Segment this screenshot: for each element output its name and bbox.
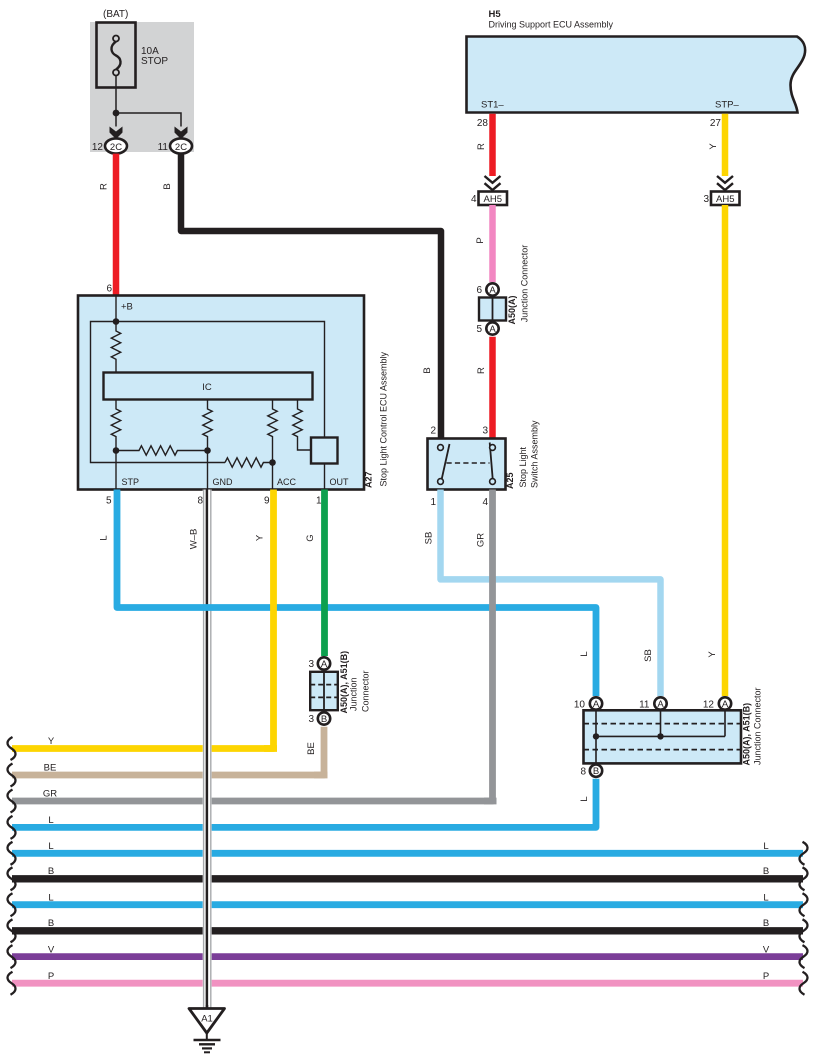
svg-text:27: 27 bbox=[710, 118, 722, 129]
svg-text:GR: GR bbox=[43, 789, 57, 800]
svg-text:Junction Connector: Junction Connector bbox=[520, 245, 530, 323]
svg-text:2: 2 bbox=[430, 426, 436, 437]
svg-text:L: L bbox=[579, 796, 590, 801]
wire SB (A25 pin 1 to junction 11A) bbox=[441, 490, 661, 697]
connector oval 2C pin 12 bbox=[105, 138, 127, 153]
svg-text:A50(A), A51(B): A50(A), A51(B) bbox=[339, 651, 349, 714]
svg-text:B: B bbox=[162, 183, 173, 189]
svg-text:STP: STP bbox=[122, 477, 140, 487]
wire break mark left y=827.4 bbox=[7, 816, 15, 839]
wire break mark left y=930.8 bbox=[7, 919, 15, 942]
wire break mark left y=956.6 bbox=[7, 945, 15, 968]
chevron arrows into AH5 no.4 bbox=[485, 176, 501, 191]
svg-text:L: L bbox=[48, 815, 53, 826]
wire STP column to pin bbox=[115, 451, 117, 490]
wire R (battery to A27 +B) bbox=[113, 154, 120, 296]
svg-text:A: A bbox=[593, 699, 600, 710]
wire break mark right y=983.2 bbox=[799, 972, 807, 995]
svg-text:1: 1 bbox=[430, 497, 436, 508]
svg-text:A: A bbox=[489, 285, 496, 296]
svg-text:6: 6 bbox=[106, 284, 112, 295]
fuse 10A STOP box bbox=[97, 23, 136, 88]
svg-text:BE: BE bbox=[44, 763, 57, 774]
svg-text:B: B bbox=[763, 866, 769, 877]
resistor below IC at STP column bbox=[111, 400, 120, 451]
junction connector right body bbox=[584, 710, 742, 763]
svg-text:Y: Y bbox=[707, 651, 718, 658]
svg-text:L: L bbox=[763, 892, 768, 903]
bus wire BE horizontal bbox=[12, 772, 328, 779]
IC box bbox=[104, 373, 313, 400]
svg-text:L: L bbox=[48, 892, 53, 903]
chevron arrows into AH5 no.3 bbox=[717, 176, 733, 191]
svg-text:3: 3 bbox=[703, 194, 709, 205]
junction connector A50(A) body bbox=[479, 298, 506, 321]
wire node to pin 11 branch bbox=[116, 113, 181, 127]
svg-text:Stop Light Control ECU Assembl: Stop Light Control ECU Assembly bbox=[379, 351, 389, 486]
svg-text:STOP: STOP bbox=[141, 56, 168, 67]
connector arrow pin 11 bbox=[175, 127, 188, 140]
svg-text:5: 5 bbox=[106, 496, 112, 507]
svg-text:L: L bbox=[48, 841, 53, 852]
svg-text:8: 8 bbox=[197, 496, 203, 507]
bus wire Y horizontal bbox=[12, 745, 277, 752]
wire +B into box bbox=[115, 296, 117, 322]
fuse symbol bbox=[111, 42, 120, 70]
svg-text:B: B bbox=[763, 918, 769, 929]
svg-text:Driving Support ECU Assembly: Driving Support ECU Assembly bbox=[489, 20, 614, 30]
transistor output driver box bbox=[311, 438, 338, 464]
svg-text:Switch Assembly: Switch Assembly bbox=[530, 420, 540, 488]
svg-text:9: 9 bbox=[264, 496, 270, 507]
ground A1 bbox=[206, 1005, 209, 1009]
svg-text:2C: 2C bbox=[175, 142, 187, 153]
wire break mark left y=775 bbox=[7, 764, 15, 787]
svg-text:G: G bbox=[305, 534, 316, 541]
svg-text:SB: SB bbox=[424, 532, 435, 545]
wire R (H5 ST1- to AH5) bbox=[489, 114, 496, 176]
svg-text:R: R bbox=[99, 183, 110, 190]
svg-text:A27: A27 bbox=[364, 471, 374, 488]
svg-text:P: P bbox=[763, 971, 769, 982]
bus wire B row6 bbox=[12, 875, 803, 882]
wire break mark right y=930.8 bbox=[799, 919, 807, 942]
svg-text:(BAT): (BAT) bbox=[103, 9, 128, 20]
svg-text:12: 12 bbox=[92, 142, 104, 153]
wire break mark left y=878.8 bbox=[7, 867, 15, 890]
svg-text:11: 11 bbox=[158, 142, 169, 153]
wire break mark left y=801 bbox=[7, 790, 15, 813]
resistor below IC at driver column bbox=[293, 400, 311, 451]
wire B (battery to A25 pin 2) bbox=[181, 154, 441, 440]
wire R (A50 to A25 pin 3) bbox=[489, 337, 496, 440]
svg-text:ACC: ACC bbox=[277, 477, 297, 487]
node +B junction dot bbox=[113, 318, 120, 325]
svg-text:GR: GR bbox=[476, 533, 487, 547]
bus wire V row9 bbox=[12, 953, 803, 960]
svg-text:Connector: Connector bbox=[361, 670, 371, 712]
svg-text:B: B bbox=[593, 766, 599, 777]
svg-text:10: 10 bbox=[574, 700, 586, 711]
wire break mark right y=878.8 bbox=[799, 867, 807, 890]
bus wire L row5 bbox=[12, 850, 803, 857]
connector oval 2C pin 11 bbox=[170, 138, 192, 153]
battery shaded area bbox=[90, 22, 194, 152]
svg-text:SB: SB bbox=[643, 649, 654, 662]
svg-text:H5: H5 bbox=[489, 9, 502, 20]
wire break mark left y=748.5 bbox=[7, 737, 15, 760]
svg-text:4: 4 bbox=[471, 194, 477, 205]
svg-text:B: B bbox=[48, 866, 54, 877]
svg-text:OUT: OUT bbox=[330, 477, 350, 487]
svg-text:V: V bbox=[763, 944, 770, 955]
svg-text:A50(A): A50(A) bbox=[507, 295, 517, 324]
svg-text:4: 4 bbox=[482, 497, 488, 508]
svg-text:2C: 2C bbox=[110, 142, 122, 153]
wire P (AH5 to junction connector A50) bbox=[489, 205, 496, 282]
bus wire L row7 bbox=[12, 901, 803, 908]
svg-text:AH5: AH5 bbox=[484, 194, 502, 205]
svg-text:6: 6 bbox=[476, 285, 482, 296]
resistor below IC at ACC column bbox=[268, 400, 277, 490]
wire G (A27 OUT to junction 3A) bbox=[321, 490, 328, 657]
connector arrow pin 12 bbox=[110, 127, 123, 140]
wire W-B (GND pin to ground A1) bbox=[203, 490, 212, 1009]
svg-text:12: 12 bbox=[703, 700, 715, 711]
svg-text:L: L bbox=[763, 841, 768, 852]
wire L (A27 STP pin to junction 10A) bbox=[117, 490, 596, 697]
svg-text:3: 3 bbox=[308, 659, 314, 670]
svg-text:Junction: Junction bbox=[349, 677, 359, 711]
resistor pull-up to IC bbox=[111, 322, 120, 373]
svg-text:A: A bbox=[489, 324, 496, 335]
svg-text:1: 1 bbox=[316, 496, 322, 507]
switch link dashed line bbox=[447, 462, 490, 464]
svg-text:IC: IC bbox=[202, 382, 212, 393]
svg-text:L: L bbox=[99, 535, 110, 540]
wire break mark right y=853.3 bbox=[799, 842, 807, 865]
svg-text:R: R bbox=[476, 367, 487, 374]
wire driver to OUT pin bbox=[324, 464, 326, 490]
svg-text:A: A bbox=[321, 659, 328, 670]
svg-text:3: 3 bbox=[308, 714, 314, 725]
svg-text:Y: Y bbox=[255, 534, 266, 541]
svg-text:11: 11 bbox=[639, 700, 650, 711]
svg-text:W–B: W–B bbox=[189, 529, 200, 550]
svg-text:+B: +B bbox=[121, 302, 133, 313]
svg-text:GND: GND bbox=[213, 477, 234, 487]
svg-text:B: B bbox=[321, 714, 327, 725]
wire GR vertical (A25 pin 4 to bus) bbox=[484, 490, 493, 802]
svg-text:5: 5 bbox=[476, 324, 482, 335]
svg-text:B: B bbox=[422, 367, 433, 373]
horizontal resistor STP-GND bbox=[116, 446, 208, 455]
bus wire B row8 bbox=[12, 927, 803, 934]
svg-text:BE: BE bbox=[306, 742, 317, 755]
svg-text:A25: A25 bbox=[505, 472, 515, 489]
svg-text:28: 28 bbox=[477, 118, 489, 129]
H5 Driving Support ECU box bbox=[467, 37, 806, 113]
wire L (8B to bus) bbox=[12, 779, 596, 828]
horizontal resistor on ACC line bbox=[225, 458, 273, 467]
wire Y vertical (A27 pin 9 to bus) bbox=[264, 490, 274, 749]
node junction dot bbox=[113, 110, 120, 117]
svg-text:8: 8 bbox=[580, 767, 586, 778]
A27 Stop Light Control ECU box bbox=[78, 296, 364, 490]
resistor below IC at GND column bbox=[203, 400, 212, 490]
node dot STP bbox=[113, 447, 120, 454]
internal links bbox=[596, 710, 725, 763]
internal bus rectangle bbox=[91, 322, 325, 463]
wire break mark right y=904.7 bbox=[799, 893, 807, 916]
svg-text:Stop Light: Stop Light bbox=[518, 446, 528, 487]
svg-text:Y: Y bbox=[708, 143, 719, 150]
svg-text:ST1–: ST1– bbox=[481, 100, 504, 111]
bus wire GR horizontal bbox=[12, 798, 497, 805]
svg-text:P: P bbox=[475, 237, 486, 243]
svg-text:B: B bbox=[48, 918, 54, 929]
wire Y (AH5 to junction connector 12A) bbox=[722, 205, 729, 696]
svg-text:STP–: STP– bbox=[715, 100, 739, 111]
svg-text:A1: A1 bbox=[201, 1014, 213, 1025]
A25 stop light switch box bbox=[428, 439, 506, 490]
wire fuse to node bbox=[115, 76, 117, 114]
svg-text:L: L bbox=[579, 651, 590, 656]
svg-text:A: A bbox=[657, 699, 664, 710]
svg-text:V: V bbox=[48, 944, 55, 955]
node dot ACC bbox=[269, 459, 276, 466]
junction connector middle body bbox=[310, 672, 338, 710]
svg-text:Junction Connector: Junction Connector bbox=[753, 687, 763, 765]
wire BE (3B to bus) bbox=[314, 727, 324, 775]
svg-text:A50(A), A51(B): A50(A), A51(B) bbox=[742, 703, 752, 766]
wire break mark right y=956.6 bbox=[799, 945, 807, 968]
bus wire P row10 bbox=[12, 980, 803, 987]
svg-text:A: A bbox=[722, 699, 729, 710]
svg-text:3: 3 bbox=[482, 426, 488, 437]
svg-text:AH5: AH5 bbox=[716, 194, 734, 205]
wire break mark left y=983.2 bbox=[7, 972, 15, 995]
wire break mark left y=853.3 bbox=[7, 842, 15, 865]
svg-text:R: R bbox=[476, 143, 487, 150]
svg-text:Y: Y bbox=[48, 736, 55, 747]
switch contacts bbox=[442, 444, 450, 480]
wire Y (H5 STP- to AH5) bbox=[722, 114, 729, 176]
svg-text:P: P bbox=[48, 971, 54, 982]
wire break mark left y=904.7 bbox=[7, 893, 15, 916]
node dot GND bbox=[204, 447, 211, 454]
